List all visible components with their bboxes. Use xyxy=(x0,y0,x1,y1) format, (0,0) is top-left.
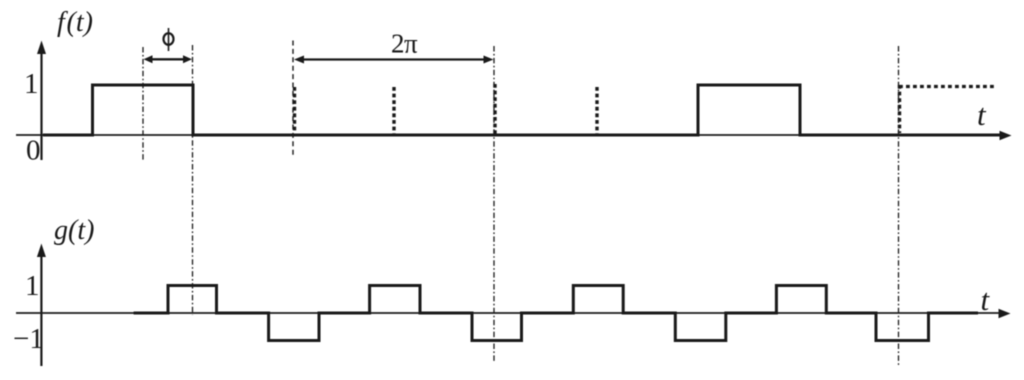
svg-text:1: 1 xyxy=(25,270,40,302)
svg-text:t: t xyxy=(977,97,987,132)
svg-text:t: t xyxy=(981,282,991,317)
svg-text:(t): (t) xyxy=(68,215,94,246)
svg-text:g: g xyxy=(54,215,68,246)
svg-text:0: 0 xyxy=(26,135,41,167)
svg-text:π: π xyxy=(404,29,418,59)
svg-text:(t): (t) xyxy=(67,7,93,38)
svg-text:−1: −1 xyxy=(13,323,44,355)
svg-text:1: 1 xyxy=(24,68,39,100)
svg-text:2: 2 xyxy=(391,29,405,59)
